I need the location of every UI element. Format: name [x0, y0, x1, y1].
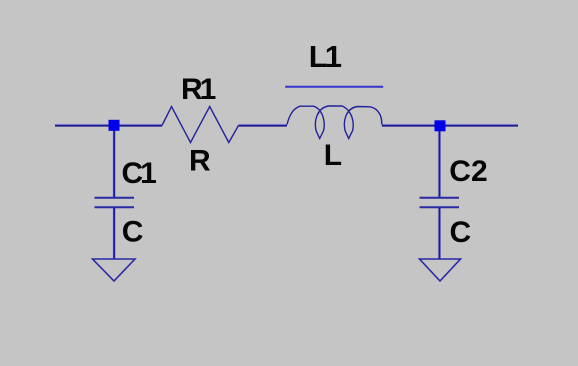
svg-text:C2: C2 [449, 155, 487, 188]
svg-text:R1: R1 [181, 73, 216, 106]
svg-text:C1: C1 [122, 157, 157, 190]
svg-text:R: R [189, 145, 211, 178]
svg-text:L: L [324, 139, 342, 172]
svg-text:C: C [450, 216, 472, 249]
svg-text:C: C [122, 215, 144, 248]
svg-text:L1: L1 [309, 39, 342, 74]
